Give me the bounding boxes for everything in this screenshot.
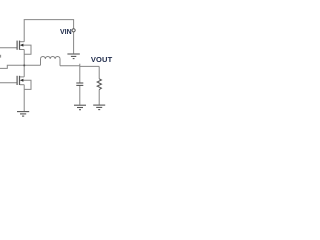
- svg-text:VIN: VIN: [60, 29, 72, 36]
- svg-text:VOUT: VOUT: [91, 55, 113, 64]
